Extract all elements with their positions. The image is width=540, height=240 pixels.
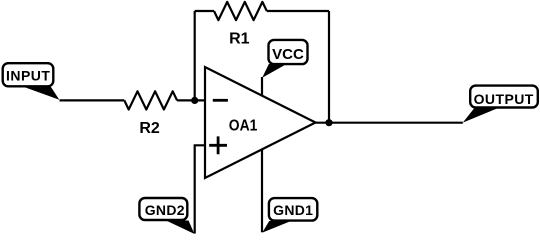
node junction at inverting input bbox=[191, 97, 198, 104]
node GND1 flag box bbox=[269, 198, 317, 221]
svg-text:R1: R1 bbox=[229, 31, 250, 48]
node junction at output bbox=[325, 119, 332, 126]
svg-text:R2: R2 bbox=[139, 120, 160, 137]
op-amp minus input symbol bbox=[213, 99, 228, 102]
wire feedback top left bbox=[195, 10, 214, 12]
svg-text:OA1: OA1 bbox=[229, 116, 258, 134]
node INPUT flag tail bbox=[23, 87, 60, 100]
node OUTPUT flag box bbox=[470, 86, 538, 108]
wire feedback top right bbox=[267, 10, 329, 12]
node INPUT flag box bbox=[3, 63, 54, 86]
wire input segment bbox=[60, 99, 125, 101]
node OUTPUT flag tail bbox=[463, 109, 497, 123]
wire non-inverting input to GND2 bbox=[195, 145, 206, 233]
wire feedback left vertical bbox=[194, 11, 196, 100]
node GND2 flag tail bbox=[166, 221, 194, 234]
svg-text:INPUT: INPUT bbox=[6, 68, 51, 84]
node VCC flag tail bbox=[262, 64, 286, 78]
svg-text:OUTPUT: OUTPUT bbox=[474, 91, 534, 107]
wire GND1 pin bbox=[261, 149, 263, 233]
node GND2 flag box bbox=[139, 198, 187, 220]
wire feedback right vertical bbox=[328, 11, 330, 123]
svg-text:VCC: VCC bbox=[272, 46, 304, 63]
wire R2 to op-amp inverting input bbox=[177, 99, 206, 101]
resistor R1 bbox=[214, 2, 267, 20]
wire output segment bbox=[316, 122, 463, 124]
svg-text:GND2: GND2 bbox=[145, 202, 185, 218]
node VCC flag box bbox=[269, 40, 308, 64]
resistor R2 bbox=[124, 91, 177, 109]
node GND1 flag tail bbox=[262, 221, 291, 233]
svg-text:GND1: GND1 bbox=[273, 202, 313, 218]
op-amp plus input symbol bbox=[209, 136, 227, 154]
op-amp U1 triangle bbox=[205, 67, 316, 178]
wire VCC pin bbox=[261, 77, 263, 97]
